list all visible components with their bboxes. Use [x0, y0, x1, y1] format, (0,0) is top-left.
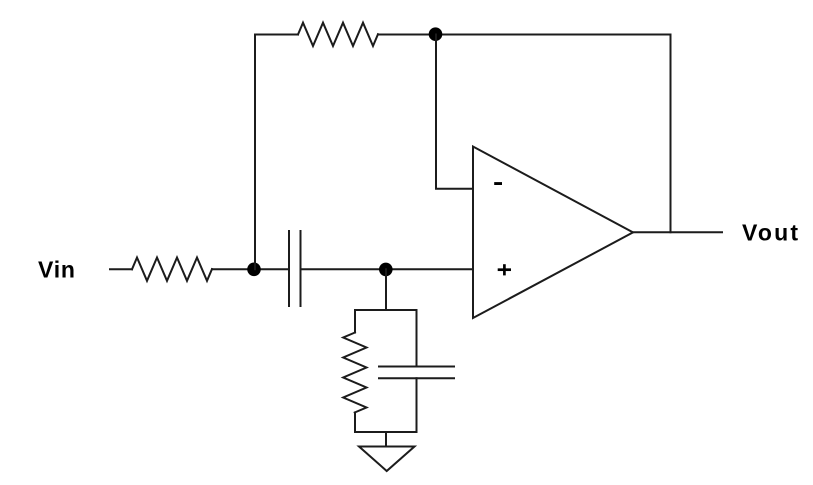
op-amp U1 plus pin label [498, 264, 511, 275]
wire node B down to inverting input [436, 35, 473, 189]
op-amp U1 [473, 147, 633, 319]
svg-text:Vin: Vin [38, 257, 76, 283]
wire node A up to top-left corner [255, 35, 298, 270]
node C [379, 263, 393, 277]
capacitor C1 [289, 231, 301, 306]
node A [247, 263, 261, 277]
resistor R3 [343, 333, 366, 413]
op-amp U1 minus pin label [494, 182, 502, 185]
wire Vin lead [110, 268, 132, 270]
ground [359, 447, 415, 472]
wire C1 to non-inverting input [301, 268, 474, 270]
capacitor C2 [379, 367, 454, 379]
wire R2 to top-right corner [378, 34, 671, 36]
wire R1 to C1 [212, 268, 289, 270]
wire output [633, 231, 722, 233]
resistor R1 [132, 258, 212, 281]
svg-text:Vout: Vout [742, 220, 800, 246]
wire tank top bar [355, 310, 417, 367]
wire node C down to tank [385, 269, 387, 310]
wire ground stub [385, 432, 387, 447]
node B [429, 27, 443, 41]
resistor R2 [298, 23, 378, 46]
wire feedback right vertical [670, 35, 672, 233]
wire tank bottom bar [355, 378, 417, 432]
